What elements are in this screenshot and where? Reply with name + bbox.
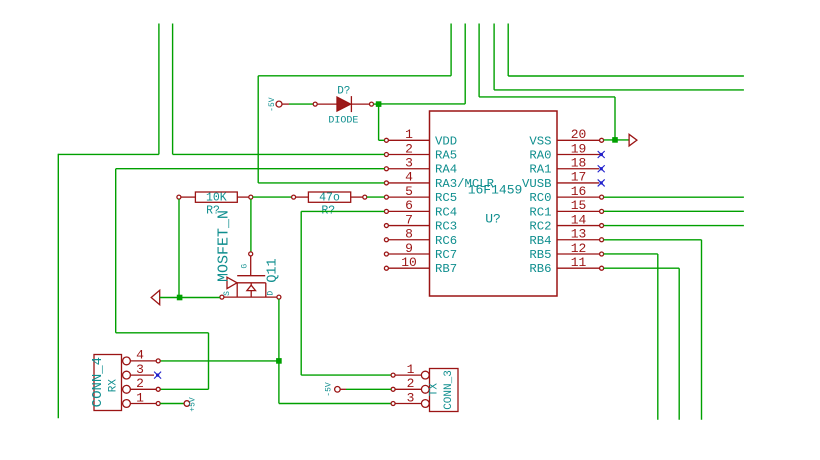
svg-text:-5V: -5V bbox=[324, 382, 333, 397]
svg-text:+5V: +5V bbox=[189, 397, 198, 412]
svg-text:RC5: RC5 bbox=[435, 191, 457, 205]
svg-text:10K: 10K bbox=[206, 192, 227, 205]
svg-text:6: 6 bbox=[405, 198, 413, 213]
svg-text:G: G bbox=[240, 264, 249, 269]
svg-text:S: S bbox=[223, 291, 232, 296]
svg-text:RA5: RA5 bbox=[435, 149, 457, 163]
svg-text:U?: U? bbox=[485, 211, 501, 226]
svg-text:CONN_3: CONN_3 bbox=[443, 370, 455, 410]
svg-text:16F1459: 16F1459 bbox=[468, 182, 523, 197]
svg-text:D?: D? bbox=[337, 85, 350, 97]
svg-text:RC6: RC6 bbox=[435, 234, 457, 248]
svg-text:MOSFET_N: MOSFET_N bbox=[216, 210, 233, 282]
svg-text:RB5: RB5 bbox=[529, 248, 551, 262]
svg-text:VSS: VSS bbox=[529, 134, 551, 148]
svg-text:RC1: RC1 bbox=[529, 205, 551, 219]
svg-text:5: 5 bbox=[405, 184, 413, 199]
svg-text:VUSB: VUSB bbox=[522, 177, 552, 191]
svg-text:RA1: RA1 bbox=[529, 163, 551, 177]
svg-text:2: 2 bbox=[405, 141, 413, 156]
svg-text:RC0: RC0 bbox=[529, 191, 551, 205]
svg-text:3: 3 bbox=[405, 156, 413, 171]
svg-text:RA0: RA0 bbox=[529, 149, 551, 163]
svg-text:4: 4 bbox=[405, 170, 413, 185]
svg-text:CONN_4: CONN_4 bbox=[90, 357, 106, 407]
svg-text:10: 10 bbox=[401, 255, 417, 270]
svg-text:-5V: -5V bbox=[268, 97, 277, 112]
svg-text:DIODE: DIODE bbox=[328, 116, 358, 127]
svg-text:7: 7 bbox=[405, 212, 413, 227]
svg-text:8: 8 bbox=[405, 227, 413, 242]
svg-text:47o: 47o bbox=[319, 192, 340, 205]
svg-text:9: 9 bbox=[405, 241, 413, 256]
svg-text:RA4: RA4 bbox=[435, 163, 457, 177]
svg-text:RC2: RC2 bbox=[529, 220, 551, 234]
svg-text:RB4: RB4 bbox=[529, 234, 551, 248]
svg-text:VDD: VDD bbox=[435, 134, 457, 148]
svg-text:RC4: RC4 bbox=[435, 205, 457, 219]
svg-text:RC7: RC7 bbox=[435, 248, 457, 262]
svg-text:TX: TX bbox=[429, 383, 441, 397]
svg-text:Q11: Q11 bbox=[265, 258, 280, 282]
svg-text:RB7: RB7 bbox=[435, 262, 457, 276]
svg-text:D: D bbox=[266, 291, 275, 296]
svg-text:RC3: RC3 bbox=[435, 220, 457, 234]
svg-text:RB6: RB6 bbox=[529, 262, 551, 276]
svg-text:RX: RX bbox=[108, 379, 120, 393]
svg-text:1: 1 bbox=[405, 127, 413, 142]
